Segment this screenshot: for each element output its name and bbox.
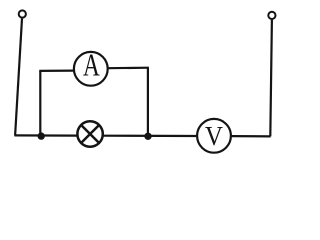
svg-text:A: A — [83, 47, 100, 82]
svg-text:V: V — [205, 121, 223, 151]
